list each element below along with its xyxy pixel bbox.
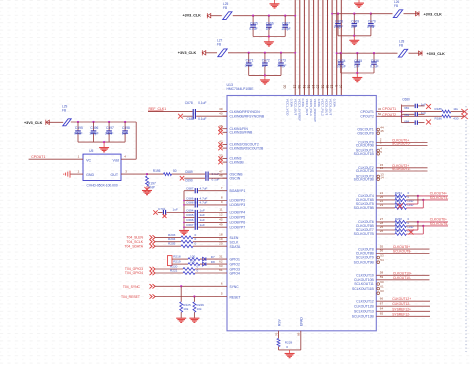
capacitor C395 0.1uF [77, 121, 79, 123]
svg-text:R221: R221 [170, 268, 178, 272]
svg-text:11k: 11k [453, 107, 458, 111]
svg-text:CPOUT1: CPOUT1 [31, 155, 45, 159]
svg-text:+3V3_CLK: +3V3_CLK [183, 14, 202, 18]
svg-text:C396: C396 [90, 126, 98, 130]
wire Vdd to rail [135, 122, 137, 159]
capacitor C694 1uF (LDOBYP4) [184, 212, 194, 214]
pin 26 SCLKOUT7B [376, 233, 395, 235]
svg-text:12: 12 [219, 213, 223, 217]
svg-text:1nF: 1nF [354, 64, 360, 68]
svg-text:CLKOUT4+: CLKOUT4+ [430, 192, 447, 196]
svg-text:0: 0 [195, 237, 197, 241]
pin 24 CLKOUT4 [376, 195, 395, 197]
svg-text:+3V3_CLK: +3V3_CLK [24, 121, 43, 125]
DNP X marks loop filter [426, 104, 431, 109]
loop filter cap ladder C680/C681/C683/C684 [401, 105, 403, 123]
svg-text:0.1uF: 0.1uF [198, 101, 206, 105]
svg-text:0.1uF: 0.1uF [74, 131, 82, 135]
resistor R269 0 [395, 224, 407, 227]
svg-text:2.2nF: 2.2nF [105, 131, 113, 135]
pin 41 CLKIN2B/OSCOUT2B (NC) [223, 147, 228, 149]
svg-text:1uF: 1uF [200, 223, 205, 227]
svg-text:FB: FB [394, 4, 398, 8]
wire sclk merge 1 [406, 229, 418, 231]
svg-text:EPAD: EPAD [299, 317, 303, 326]
svg-text:VCC3_SYSREF: VCC3_SYSREF [297, 99, 301, 121]
resistor R221 0 [155, 272, 183, 274]
svg-text:SDATA: SDATA [230, 245, 242, 249]
svg-text:76: 76 [275, 332, 279, 336]
ground above bank1 [274, 0, 276, 4]
diode D8 [200, 263, 227, 265]
pin 22 SCLKOUT5 [376, 203, 395, 205]
resistor R195 50 [147, 173, 164, 175]
svg-text:1uF: 1uF [122, 131, 128, 135]
svg-text:C686: C686 [186, 196, 194, 200]
svg-text:SCLKOUT11: SCLKOUT11 [354, 282, 374, 286]
svg-text:CPOUT2: CPOUT2 [360, 115, 374, 119]
svg-text:53: 53 [380, 254, 384, 258]
svg-text:67: 67 [380, 301, 384, 305]
pin 23 SCLKOUT5B [376, 207, 395, 209]
svg-text:19: 19 [219, 237, 223, 241]
svg-text:C395: C395 [75, 126, 83, 130]
resistor R228 0 [277, 338, 280, 346]
svg-text:C665: C665 [250, 21, 258, 25]
pin 58 CLKOUT10 [376, 274, 429, 276]
svg-text:C635: C635 [354, 59, 362, 63]
wire C682 to pin40 [183, 115, 193, 117]
svg-text:C671: C671 [246, 59, 254, 63]
svg-text:RESET: RESET [230, 295, 241, 299]
capacitor C695 1uF (LDOBYP5) [184, 216, 194, 218]
ground bottom [289, 350, 291, 353]
svg-text:49: 49 [219, 222, 223, 226]
pin 4 SCLKOUT1 (NC) [377, 149, 380, 152]
capacitor C687 4.7uF (BGABYP1) [184, 190, 194, 192]
svg-text:LDOBYP6: LDOBYP6 [230, 221, 246, 225]
svg-text:60: 60 [380, 280, 384, 284]
svg-text:C689: C689 [185, 170, 193, 174]
svg-text:100pF: 100pF [334, 25, 343, 29]
pin 53 SCLKOUT9 (NC) [377, 256, 380, 259]
svg-text:VCC5_PLL1: VCC5_PLL1 [309, 99, 313, 116]
capacitor C398 1uF [124, 121, 126, 123]
svg-text:0.33A: 0.33A [290, 99, 294, 108]
svg-text:C678: C678 [185, 101, 193, 105]
svg-text:VCC4_OUT: VCC4_OUT [305, 99, 309, 116]
net stub arrows CPOUT [461, 109, 467, 114]
svg-text:0.1uF: 0.1uF [198, 117, 206, 121]
svg-text:SYSREF12-: SYSREF12- [392, 312, 410, 316]
ferrite bead L27 [218, 49, 227, 57]
svg-text:LDOBYP5: LDOBYP5 [230, 216, 246, 220]
wire sclk merge 1 [406, 203, 418, 205]
capacitor C701 1uF DNP [153, 210, 157, 214]
svg-text:HMC7044LP10BE: HMC7044LP10BE [227, 87, 255, 91]
svg-text:C690: C690 [185, 178, 193, 182]
pin 37 CLKIN1B/FINB (NC) [223, 131, 228, 133]
svg-text:50: 50 [378, 112, 382, 116]
svg-text:GND: GND [86, 173, 94, 177]
ferrite bead L28 [376, 52, 398, 54]
svg-text:T04_SCLK: T04_SCLK [126, 240, 143, 244]
sheet boundary dotted line [465, 106, 467, 352]
capacitor C666 1nF [268, 15, 270, 17]
wire bottom rail [279, 349, 301, 351]
ground U5 GND pin [70, 173, 83, 175]
pin 2 CLKOUT0 [376, 142, 427, 144]
svg-text:45: 45 [380, 129, 384, 133]
svg-text:57: 57 [339, 85, 343, 89]
svg-text:CLKOUT12-: CLKOUT12- [392, 302, 410, 306]
capacitor C634 100pF [340, 52, 342, 54]
svg-text:15: 15 [311, 85, 315, 89]
oscillator U5 body [83, 154, 121, 180]
svg-text:50: 50 [173, 169, 177, 173]
capacitor C669 1nF [353, 13, 355, 15]
svg-text:R205: R205 [168, 242, 176, 246]
svg-text:1nF: 1nF [421, 102, 426, 106]
svg-text:SCLKOUT13: SCLKOUT13 [354, 310, 374, 314]
svg-text:C701: C701 [158, 207, 166, 211]
component U14 (protection, DNP) [168, 256, 173, 266]
svg-text:OUT: OUT [111, 173, 119, 177]
power net +3V3_CLK (right, row1) [404, 13, 420, 15]
svg-text:CLKIN1B/FINB: CLKIN1B/FINB [230, 131, 254, 135]
svg-text:VCC2_OUT: VCC2_OUT [293, 99, 297, 116]
ferrite bead L26 [371, 13, 393, 15]
svg-text:FB: FB [217, 43, 221, 47]
svg-text:C667: C667 [282, 21, 290, 25]
LDO bypass ground bus [183, 191, 185, 231]
capacitor C636 0.1uF [373, 52, 375, 54]
svg-text:0.1uF: 0.1uF [367, 25, 375, 29]
svg-text:FB: FB [223, 6, 227, 10]
svg-text:1uF: 1uF [200, 208, 205, 212]
DNP X group4 [397, 203, 402, 208]
svg-text:VCC9_OUT: VCC9_OUT [329, 99, 333, 116]
wire L25 to bank1 rail [210, 15, 222, 17]
svg-text:VCC1_VCO: VCC1_VCO [286, 99, 290, 116]
svg-text:33: 33 [325, 85, 329, 89]
resistor R219 100 [172, 263, 188, 265]
svg-text:100pF: 100pF [89, 131, 98, 135]
svg-text:OSCOUT0: OSCOUT0 [357, 131, 374, 135]
svg-text:30: 30 [283, 85, 287, 89]
svg-text:R185: R185 [435, 107, 443, 111]
svg-text:SCLKOUT2-: SCLKOUT2- [392, 167, 411, 171]
resistor R270 DNP [395, 229, 407, 232]
svg-text:RSV: RSV [277, 318, 281, 326]
pin 13 SCLKOUT3 (NC) [377, 175, 380, 178]
capacitor C672 1nF [264, 52, 266, 54]
svg-text:CLKOUT12+: CLKOUT12+ [392, 297, 411, 301]
svg-text:0.33A: 0.33A [301, 99, 305, 108]
svg-text:100: 100 [190, 259, 195, 263]
svg-text:C634: C634 [338, 59, 346, 63]
svg-text:CLKIN3B: CLKIN3B [230, 160, 245, 164]
svg-text:D7: D7 [211, 255, 215, 259]
svg-text:C697: C697 [186, 223, 194, 227]
pin 14 SCLKOUT3B (NC) [377, 178, 380, 181]
svg-text:R218: R218 [173, 254, 181, 258]
ground X for CLKIN0B [178, 114, 183, 119]
svg-text:SCLKOUT7B: SCLKOUT7B [354, 232, 375, 236]
resistor R271 DNP [395, 233, 407, 236]
pin 50 CPOUT2 [376, 115, 381, 117]
svg-text:13: 13 [329, 85, 333, 89]
resistor R205 0 [155, 245, 181, 247]
svg-text:SCLK: SCLK [230, 240, 240, 244]
wire REF_CLK1 to C678 [148, 111, 193, 113]
svg-text:C687: C687 [186, 187, 194, 191]
pin 47 OSCINB [223, 173, 228, 175]
bank4 bottom rail [341, 72, 374, 74]
svg-text:R271: R271 [395, 229, 402, 233]
svg-text:61: 61 [219, 268, 223, 272]
pin 56 CLKOUT8B [376, 253, 429, 255]
svg-text:45: 45 [219, 218, 223, 222]
svg-text:684: 684 [404, 119, 409, 123]
pin 27 CLKOUT6 [376, 221, 395, 223]
svg-text:25: 25 [316, 85, 320, 89]
capacitor C635 1nF [356, 52, 358, 54]
svg-text:SYNC: SYNC [230, 285, 240, 289]
pin 28 CLKOUT6B [376, 225, 395, 227]
ground R226 [189, 318, 199, 322]
svg-text:430: 430 [453, 117, 458, 121]
capacitor C665 0.1uF [252, 15, 254, 17]
svg-text:VCC7_PLL2: VCC7_PLL2 [321, 99, 325, 116]
svg-text:23: 23 [380, 203, 384, 207]
svg-text:CLKOUT6+: CLKOUT6+ [430, 218, 447, 222]
wire CLKOUT6+ out [406, 221, 418, 223]
svg-text:C694: C694 [186, 208, 194, 212]
pin 25 CLKOUT4B [376, 199, 395, 201]
wire CPOUT2 run [381, 115, 442, 117]
pin 5 SCLKOUT1B (NC) [377, 153, 380, 156]
svg-text:GPIO4: GPIO4 [230, 272, 240, 276]
pin 25 SCLKOUT7 [376, 229, 395, 231]
svg-text:10k: 10k [183, 307, 188, 311]
pin 3 CLKOUT0B [376, 145, 427, 147]
wire L29 to bead and cap rail [47, 121, 64, 123]
svg-text:39: 39 [219, 107, 223, 111]
svg-text:SCLKOUT8-: SCLKOUT8- [393, 250, 412, 254]
pin 16 CLKOUT2B [376, 170, 427, 172]
svg-text:SCLKOUT9: SCLKOUT9 [356, 256, 374, 260]
svg-text:1nF: 1nF [262, 64, 268, 68]
capacitor C686 4.7uF (LDOBYP2) [184, 200, 194, 202]
svg-text:C668: C668 [335, 19, 343, 23]
svg-text:32: 32 [378, 107, 382, 111]
svg-text:LDOBYP7: LDOBYP7 [230, 225, 246, 229]
pin 33 CLKIN3 (NC) [223, 158, 228, 160]
svg-text:SCLKOUT11B: SCLKOUT11B [352, 287, 375, 291]
svg-text:C695: C695 [186, 213, 194, 217]
capacitor C397 2.2nF [108, 121, 110, 123]
capacitor C697 1uF (LDOBYP7) [184, 226, 194, 228]
resistor R185 11k [442, 110, 451, 113]
svg-text:GPIO1: GPIO1 [230, 258, 240, 262]
wire SCLKOUT4- out [406, 199, 423, 201]
bus VCC supply lines [294, 0, 296, 96]
svg-text:21: 21 [293, 85, 297, 89]
capacitor C671 0.1uF [248, 52, 250, 54]
svg-text:+3V3_CLK: +3V3_CLK [427, 52, 446, 56]
svg-text:VCC6_OSCOUT: VCC6_OSCOUT [313, 99, 317, 122]
svg-text:59: 59 [380, 275, 384, 279]
svg-text:100pF: 100pF [281, 27, 290, 31]
svg-text:CPOUT1: CPOUT1 [382, 107, 396, 111]
svg-text:Vdd: Vdd [113, 159, 119, 163]
svg-text:0: 0 [197, 268, 199, 272]
svg-text:+3V3_CLK: +3V3_CLK [178, 51, 197, 55]
svg-text:LDOBYP3: LDOBYP3 [230, 203, 246, 207]
resistor R226 10k [193, 297, 195, 302]
svg-text:CLKIN2B/OSCOUT2B: CLKIN2B/OSCOUT2B [230, 146, 264, 150]
svg-text:C669: C669 [351, 19, 359, 23]
svg-text:100pF: 100pF [277, 64, 286, 68]
ground X for OSCIN cap [180, 176, 184, 180]
svg-text:SCLKOUT13B: SCLKOUT13B [352, 315, 375, 319]
wire R185 out [451, 111, 465, 113]
svg-text:31: 31 [219, 254, 223, 258]
svg-text:1uF: 1uF [173, 207, 178, 211]
svg-text:0.33A: 0.33A [317, 99, 321, 108]
pin 61 SCLKOUT11B (NC) [377, 287, 380, 290]
svg-text:69: 69 [297, 332, 301, 336]
resistor R225 10k [180, 286, 182, 302]
svg-text:R204: R204 [168, 237, 176, 241]
capacitor C696 1uF (LDOBYP6) [184, 221, 194, 223]
resistor R197 DNP [146, 176, 149, 186]
pin 34 CLKIN3B (NC) [223, 161, 228, 163]
wire SYNC [155, 285, 227, 287]
pin 55 CLKOUT8 [376, 248, 429, 250]
ground bank3 [353, 36, 355, 40]
resistor R220 0 [155, 268, 183, 270]
ferrite bead L29 [63, 119, 71, 126]
pin 36 CLKIN1/FIN (NC) [223, 128, 228, 130]
svg-text:0.1uF: 0.1uF [370, 64, 378, 68]
wire sclk merge 2 [406, 233, 423, 235]
ground LDO bus [179, 231, 189, 235]
pin 48 OSCIN [223, 177, 228, 179]
svg-text:SCLKOUT5B: SCLKOUT5B [354, 206, 375, 210]
svg-text:CLKOUT8: CLKOUT8 [358, 247, 374, 251]
ground R197 [146, 186, 148, 190]
power net +3V3_CLK (right, row2) [409, 52, 423, 54]
svg-text:C636: C636 [371, 59, 379, 63]
pin 63 SCLKOUT13 (NC) [377, 292, 380, 295]
capacitor C688 4.7uF (LDOBYP3) [184, 204, 194, 206]
capacitor C670 0.1uF [370, 13, 372, 15]
wire sclk merge 2 [406, 207, 423, 209]
svg-text:11: 11 [219, 208, 222, 212]
svg-text:CLKIN0B/RFSYNCINB: CLKIN0B/RFSYNCINB [230, 114, 265, 118]
svg-text:1uF: 1uF [200, 213, 205, 217]
svg-text:55: 55 [380, 244, 384, 248]
svg-text:3: 3 [334, 85, 338, 87]
pin 45 OSCOUT0 (NC) [377, 132, 380, 135]
svg-text:61: 61 [380, 285, 384, 289]
resistor R266 DNP [395, 203, 407, 206]
pin 60 SCLKOUT11 (NC) [377, 283, 380, 286]
svg-text:REF_CLK1: REF_CLK1 [149, 107, 167, 111]
svg-text:CLKOUT10: CLKOUT10 [356, 274, 374, 278]
diode D7 [200, 258, 227, 260]
svg-text:U5: U5 [89, 149, 93, 153]
bank3 left feed wire [332, 13, 371, 15]
svg-text:VCC8_OUT: VCC8_OUT [325, 99, 329, 116]
svg-text:C666: C666 [266, 21, 274, 25]
svg-text:VC: VC [86, 159, 91, 163]
svg-text:52: 52 [320, 85, 324, 89]
pin 65 SCLKOUT13B [376, 315, 430, 317]
svg-text:1nF: 1nF [351, 25, 357, 29]
svg-text:R219: R219 [173, 259, 181, 263]
pin 54 SCLKOUT9B (NC) [377, 261, 380, 264]
svg-text:1nF: 1nF [421, 111, 426, 115]
svg-text:63: 63 [380, 289, 384, 293]
resistor R218 100 [172, 258, 188, 260]
resistor R265 0 [395, 198, 407, 201]
wire CLKOUT4+ out [406, 195, 418, 197]
ground U5 cap bank [103, 142, 105, 147]
capacitor C673 100pF [280, 52, 282, 54]
wire R186 out [451, 115, 465, 117]
pin 66 CLKOUT12 [376, 300, 430, 302]
svg-text:LDOBYP4: LDOBYP4 [230, 211, 246, 215]
svg-text:20: 20 [219, 241, 223, 245]
svg-text:SCLKOUT4-: SCLKOUT4- [430, 196, 449, 200]
svg-text:62: 62 [219, 259, 223, 263]
svg-text:SCLKOUT1B: SCLKOUT1B [354, 152, 375, 156]
wire CPOUT1 run [381, 111, 442, 113]
pin 15 CLKOUT2 [376, 167, 427, 169]
svg-text:C397: C397 [106, 126, 114, 130]
svg-text:R195: R195 [153, 169, 161, 173]
capacitor C668 100pF [337, 13, 339, 15]
svg-text:16: 16 [380, 166, 384, 170]
resistor R264 0 [395, 194, 407, 197]
svg-text:CLKOUT2B: CLKOUT2B [356, 169, 375, 173]
ground bank2 [264, 75, 266, 79]
svg-text:58: 58 [380, 271, 384, 275]
svg-text:CLKOUT0B: CLKOUT0B [356, 144, 375, 148]
svg-text:SCLKOUT6-: SCLKOUT6- [430, 222, 449, 226]
bank1 bottom rail [253, 36, 285, 38]
svg-text:CLKOUT12B: CLKOUT12B [354, 304, 375, 308]
resistor R186 430 [442, 115, 451, 118]
svg-text:100pF: 100pF [337, 64, 346, 68]
svg-text:CLKOUT8+: CLKOUT8+ [393, 245, 410, 249]
pin 42 CLKIN2/OSCOUT2 (NC) [223, 144, 228, 146]
pin 44 OSCOUT1 (NC) [377, 128, 380, 131]
capacitor C396 100pF [92, 121, 94, 123]
svg-text:C672: C672 [262, 59, 270, 63]
svg-text:D8: D8 [211, 260, 215, 264]
svg-text:CVHD-950X-100.000: CVHD-950X-100.000 [87, 183, 118, 187]
wire RESET [155, 296, 227, 298]
svg-text:OSCIN: OSCIN [230, 176, 241, 180]
wire SCLKOUT6- out [406, 225, 423, 227]
svg-text:CLKOUT10+: CLKOUT10+ [393, 271, 412, 275]
svg-text:65: 65 [380, 312, 384, 316]
svg-text:61: 61 [306, 85, 310, 89]
